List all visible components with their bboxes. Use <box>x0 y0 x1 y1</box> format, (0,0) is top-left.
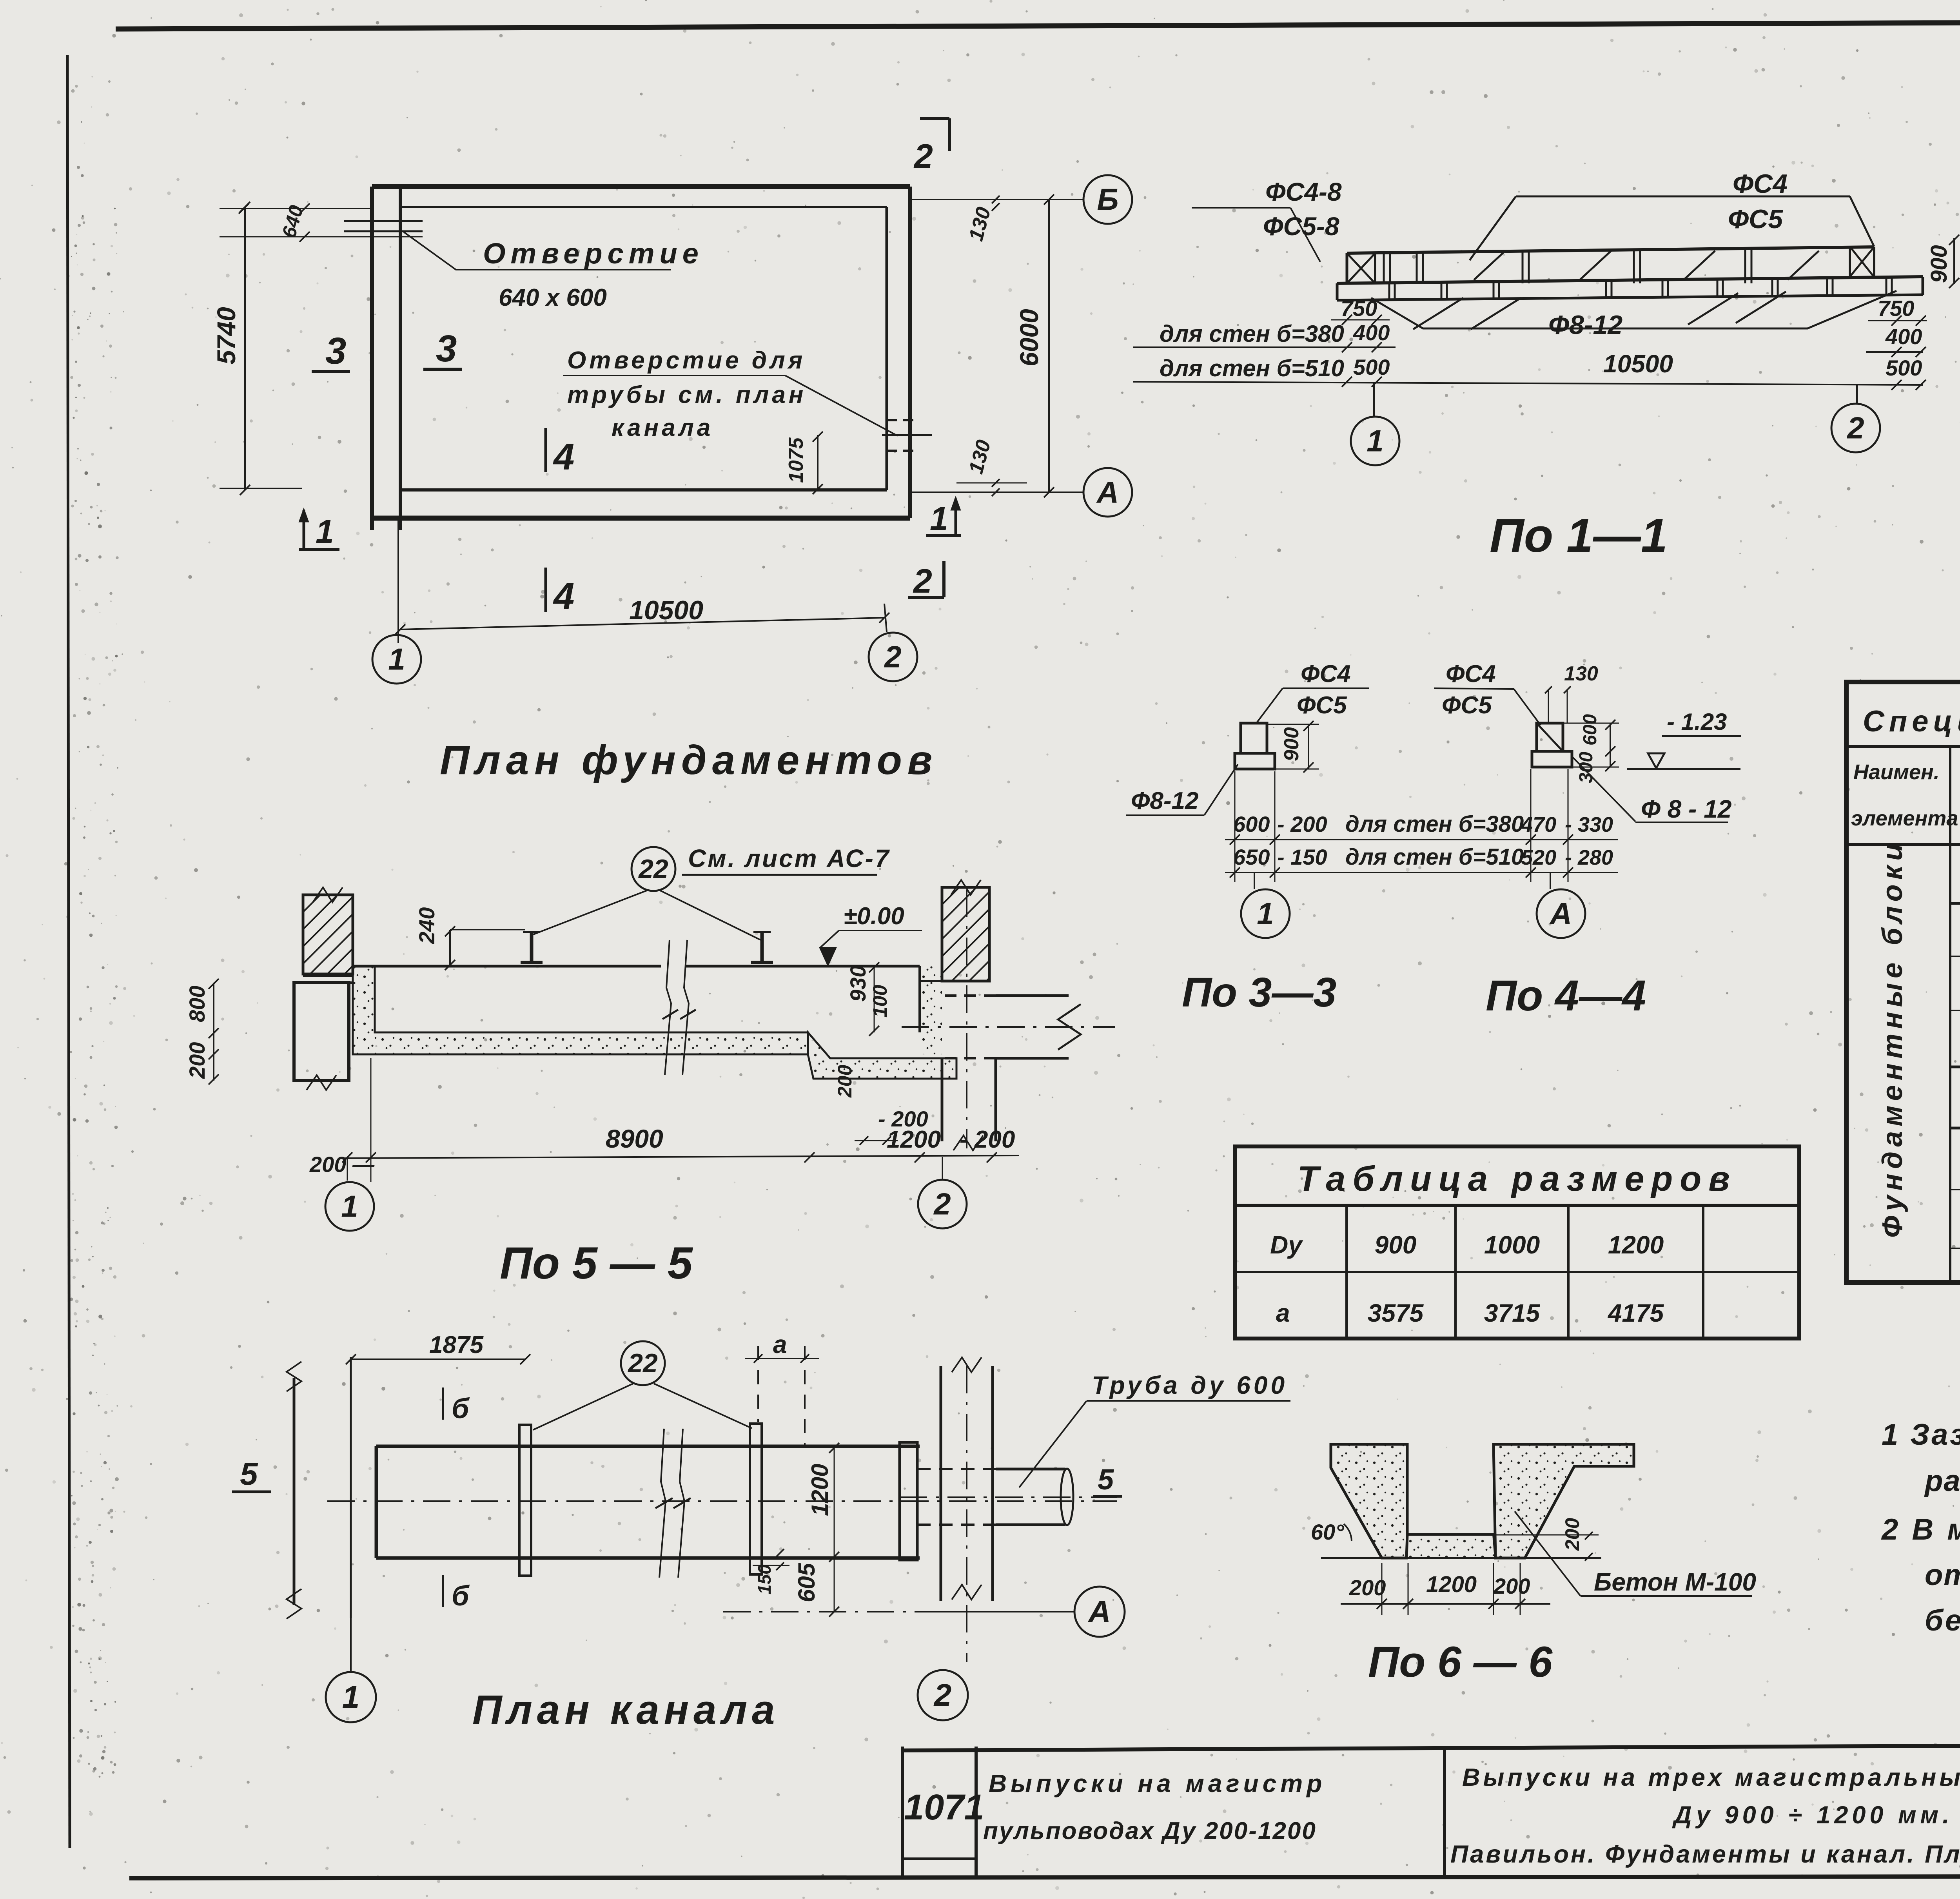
svg-text:900: 900 <box>1280 727 1303 761</box>
svg-text:элемента: элемента <box>1851 807 1958 830</box>
svg-text:1 Зазоры между блоками заделат: 1 Зазоры между блоками заделать цементны… <box>1882 1418 1960 1451</box>
svg-text:Павильон. Фундаменты и канал.: Павильон. Фундаменты и канал. План и раз… <box>1450 1841 1960 1868</box>
svg-text:200: 200 <box>1349 1575 1386 1600</box>
svg-text:930: 930 <box>846 965 870 1002</box>
svg-text:План канала: План канала <box>472 1687 780 1733</box>
svg-text:А: А <box>1549 896 1572 931</box>
svg-text:По 1—1: По 1—1 <box>1490 509 1668 562</box>
svg-text:3575: 3575 <box>1368 1299 1424 1327</box>
svg-text:22: 22 <box>638 854 668 884</box>
svg-text:500: 500 <box>1886 355 1922 380</box>
svg-text:раствором состава 1:2.: раствором состава 1:2. <box>1924 1464 1960 1498</box>
svg-text:520: 520 <box>1521 846 1556 869</box>
svg-text:- 1.23: - 1.23 <box>1667 709 1727 735</box>
svg-text:1: 1 <box>388 642 405 677</box>
svg-text:10500: 10500 <box>629 595 703 625</box>
svg-text:б: б <box>452 1393 470 1424</box>
svg-text:1: 1 <box>930 500 948 537</box>
svg-text:800: 800 <box>185 986 209 1022</box>
svg-text:6000: 6000 <box>1014 309 1044 366</box>
svg-text:150: 150 <box>754 1564 775 1594</box>
svg-text:a: a <box>1276 1299 1290 1327</box>
svg-text:750: 750 <box>1878 296 1914 321</box>
svg-text:1: 1 <box>1367 424 1383 458</box>
svg-text:2 В местах прохождения трубы п: 2 В местах прохождения трубы по оси „2” … <box>1881 1513 1960 1546</box>
svg-text:ФС4: ФС4 <box>1446 660 1496 687</box>
svg-text:отверстия по оси „1 ок за: отверстия по оси „1 ок заменяется <box>1925 1558 1960 1592</box>
svg-text:Dy: Dy <box>1270 1231 1303 1259</box>
svg-text:Наимен.: Наимен. <box>1853 760 1940 784</box>
svg-text:1: 1 <box>342 1680 360 1714</box>
svg-text:Фундаментные блоки: Фундаментные блоки <box>1877 839 1908 1238</box>
svg-text:1200: 1200 <box>887 1126 941 1153</box>
svg-text:Бетон М-100: Бетон М-100 <box>1594 1568 1756 1596</box>
svg-text:Отверстие для: Отверстие для <box>567 347 806 374</box>
svg-text:Ф8-12: Ф8-12 <box>1548 310 1622 340</box>
svg-text:470: 470 <box>1521 813 1556 836</box>
svg-text:Выпуски на магистр: Выпуски на магистр <box>989 1769 1326 1797</box>
svg-text:3: 3 <box>325 330 346 372</box>
svg-text:8900: 8900 <box>606 1124 663 1153</box>
svg-text:По 6 — 6: По 6 — 6 <box>1368 1638 1553 1686</box>
svg-text:±0.00: ±0.00 <box>844 903 904 930</box>
svg-text:600: 600 <box>1580 714 1601 745</box>
svg-text:5: 5 <box>240 1456 258 1492</box>
svg-text:1: 1 <box>1257 896 1274 931</box>
svg-text:План фундаментов: План фундаментов <box>440 737 938 783</box>
svg-text:600: 600 <box>1233 812 1270 836</box>
svg-text:1: 1 <box>341 1189 358 1224</box>
svg-text:10500: 10500 <box>1603 350 1673 378</box>
svg-text:ФС4: ФС4 <box>1733 169 1788 199</box>
svg-text:400: 400 <box>1353 320 1390 345</box>
svg-text:- 330: - 330 <box>1565 813 1613 836</box>
svg-text:200: 200 <box>1493 1574 1530 1598</box>
svg-text:для стен б=510: для стен б=510 <box>1345 844 1524 870</box>
svg-text:a: a <box>773 1330 787 1359</box>
svg-text:200: 200 <box>834 1065 856 1098</box>
svg-text:900: 900 <box>1375 1231 1417 1259</box>
svg-text:1200: 1200 <box>1426 1572 1477 1597</box>
svg-text:1000: 1000 <box>1484 1231 1540 1259</box>
svg-text:- 150: - 150 <box>1277 845 1327 869</box>
svg-text:ФС4-8: ФС4-8 <box>1265 177 1342 206</box>
svg-text:5: 5 <box>1098 1463 1114 1496</box>
svg-text:2: 2 <box>884 640 901 674</box>
svg-text:500: 500 <box>1353 355 1390 379</box>
svg-text:ФС5: ФС5 <box>1297 692 1347 719</box>
svg-text:4: 4 <box>553 575 574 617</box>
svg-text:3715: 3715 <box>1484 1299 1541 1327</box>
svg-text:1875: 1875 <box>429 1331 484 1359</box>
svg-text:900: 900 <box>1926 245 1952 283</box>
svg-text:По 5 — 5: По 5 — 5 <box>500 1238 693 1288</box>
svg-text:750: 750 <box>1341 296 1377 321</box>
svg-text:1071: 1071 <box>904 1787 984 1827</box>
svg-text:400: 400 <box>1885 324 1922 349</box>
svg-text:605: 605 <box>793 1562 820 1602</box>
svg-text:- 200: - 200 <box>960 1126 1015 1153</box>
svg-text:для стен б=510: для стен б=510 <box>1160 355 1344 381</box>
svg-text:По 3—3: По 3—3 <box>1182 969 1336 1016</box>
svg-text:пульповодах Ду 200-1200: пульповодах Ду 200-1200 <box>983 1817 1317 1845</box>
svg-text:4: 4 <box>553 436 574 478</box>
svg-text:- 280: - 280 <box>1565 846 1613 869</box>
svg-text:1200: 1200 <box>1608 1231 1664 1259</box>
svg-text:240: 240 <box>414 907 439 944</box>
svg-text:Таблица размеров: Таблица размеров <box>1297 1159 1737 1199</box>
svg-text:22: 22 <box>627 1348 658 1378</box>
svg-text:130: 130 <box>1564 662 1598 685</box>
svg-text:ФС4: ФС4 <box>1301 660 1351 687</box>
svg-text:1: 1 <box>316 513 334 550</box>
svg-text:1200: 1200 <box>807 1464 833 1516</box>
svg-text:ФС5: ФС5 <box>1442 692 1492 719</box>
svg-text:4175: 4175 <box>1607 1299 1664 1327</box>
svg-text:3: 3 <box>436 328 457 370</box>
svg-text:- 200: - 200 <box>1277 812 1327 836</box>
svg-text:А: А <box>1087 1594 1111 1629</box>
svg-text:5740: 5740 <box>212 307 241 365</box>
svg-text:2: 2 <box>933 1678 952 1712</box>
svg-text:Спецификация сборных бетонных: Спецификация сборных бетонных блоков <box>1863 705 1960 738</box>
svg-text:Ф 8 - 12: Ф 8 - 12 <box>1641 795 1731 823</box>
svg-text:для стен б=380: для стен б=380 <box>1345 811 1524 837</box>
svg-text:Ду 900 ÷ 1200 мм.: Ду 900 ÷ 1200 мм. <box>1672 1801 1953 1829</box>
svg-text:2: 2 <box>933 1187 951 1221</box>
svg-text:б: б <box>452 1580 470 1612</box>
svg-text:640 х 600: 640 х 600 <box>499 284 607 311</box>
svg-text:См. лист АС-7: См. лист АС-7 <box>688 844 890 872</box>
svg-text:60°: 60° <box>1311 1520 1344 1544</box>
svg-text:2: 2 <box>913 138 933 175</box>
svg-text:Труба ду 600: Труба ду 600 <box>1092 1371 1288 1399</box>
svg-text:650: 650 <box>1233 845 1270 869</box>
svg-text:Выпуски на трех магистральных: Выпуски на трех магистральных пульповода… <box>1462 1764 1960 1791</box>
svg-text:трубы см. план: трубы см. план <box>567 381 806 408</box>
svg-text:200 —: 200 — <box>309 1152 375 1177</box>
svg-text:1075: 1075 <box>785 437 808 483</box>
svg-text:ФС5: ФС5 <box>1728 204 1783 234</box>
svg-text:200: 200 <box>185 1042 209 1079</box>
svg-text:2: 2 <box>913 562 932 600</box>
svg-text:бетоном М-100.: бетоном М-100. <box>1925 1604 1960 1637</box>
svg-text:Ф8-12: Ф8-12 <box>1131 787 1199 814</box>
svg-text:2: 2 <box>1846 411 1864 445</box>
svg-text:для стен б=380: для стен б=380 <box>1160 321 1344 347</box>
svg-text:канала: канала <box>612 414 713 441</box>
svg-text:100: 100 <box>869 985 891 1018</box>
svg-text:По 4—4: По 4—4 <box>1486 972 1646 1020</box>
svg-text:А: А <box>1096 475 1119 510</box>
svg-text:Б: Б <box>1097 182 1118 217</box>
svg-text:Отверстие: Отверстие <box>483 237 704 270</box>
